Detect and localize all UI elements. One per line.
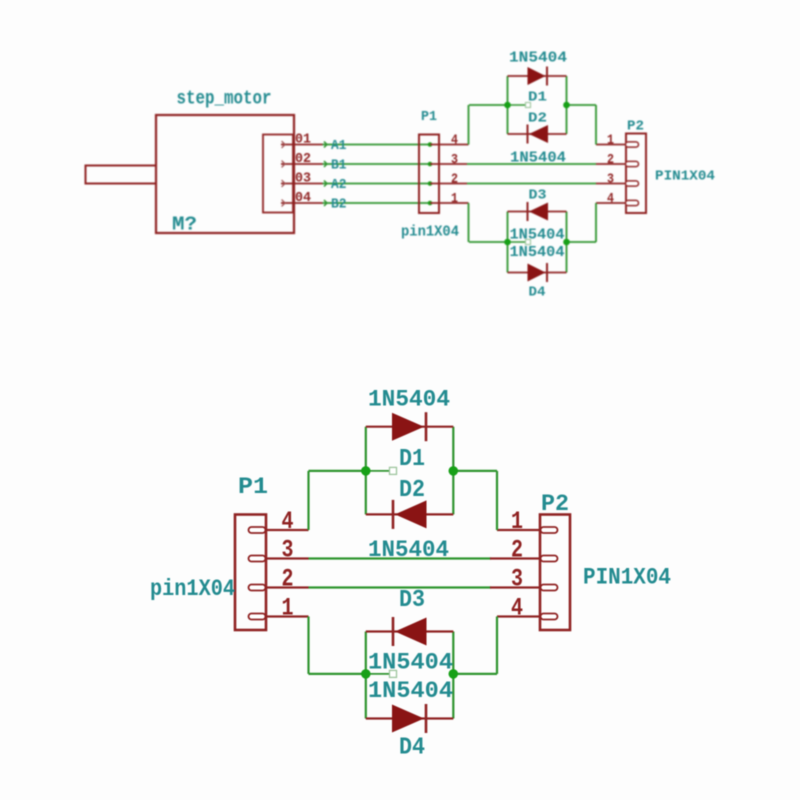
svg-text:P1: P1	[421, 109, 437, 125]
svg-text:4: 4	[607, 191, 614, 207]
svg-text:P2: P2	[541, 491, 569, 517]
svg-text:3: 3	[511, 565, 523, 594]
svg-text:2: 2	[511, 536, 523, 565]
svg-text:1N5404: 1N5404	[368, 650, 453, 676]
svg-text:1N5404: 1N5404	[510, 227, 565, 244]
svg-text:1: 1	[282, 594, 294, 623]
svg-text:D3: D3	[529, 188, 547, 204]
svg-text:M?: M?	[172, 214, 197, 236]
svg-text:B2: B2	[331, 197, 347, 213]
svg-text:1N5404: 1N5404	[509, 50, 567, 67]
svg-text:03: 03	[295, 172, 311, 187]
svg-text:step_motor: step_motor	[177, 88, 272, 110]
svg-text:D2: D2	[399, 477, 425, 504]
svg-text:01: 01	[295, 133, 311, 148]
svg-text:D4: D4	[399, 735, 425, 762]
svg-text:1: 1	[607, 133, 614, 149]
svg-text:3: 3	[282, 536, 294, 565]
svg-text:2: 2	[451, 172, 458, 188]
svg-text:PIN1X04: PIN1X04	[655, 169, 715, 185]
svg-text:pin1X04: pin1X04	[150, 576, 235, 602]
svg-text:1: 1	[451, 191, 458, 207]
svg-text:1N5404: 1N5404	[510, 150, 566, 167]
svg-text:1N5404: 1N5404	[368, 387, 450, 413]
svg-text:4: 4	[451, 133, 458, 149]
svg-text:D1: D1	[399, 446, 425, 473]
svg-text:04: 04	[295, 191, 311, 206]
svg-text:D4: D4	[529, 285, 546, 301]
svg-text:1N5404: 1N5404	[510, 244, 565, 261]
svg-text:4: 4	[511, 594, 523, 623]
svg-text:1: 1	[511, 507, 523, 536]
svg-text:02: 02	[295, 152, 311, 167]
svg-text:1N5404: 1N5404	[368, 678, 453, 704]
svg-text:pin1X04: pin1X04	[401, 224, 459, 241]
svg-text:D2: D2	[528, 111, 547, 127]
svg-text:3: 3	[607, 172, 614, 188]
svg-text:3: 3	[451, 152, 458, 168]
svg-text:A2: A2	[331, 177, 347, 193]
svg-text:4: 4	[282, 507, 294, 536]
svg-text:D1: D1	[528, 90, 547, 106]
svg-text:P1: P1	[238, 474, 268, 500]
svg-text:2: 2	[282, 565, 294, 594]
svg-text:P2: P2	[627, 119, 644, 135]
svg-text:B1: B1	[331, 158, 347, 174]
svg-text:2: 2	[607, 152, 614, 168]
svg-text:1N5404: 1N5404	[368, 537, 449, 563]
svg-text:D3: D3	[399, 587, 425, 614]
svg-text:PIN1X04: PIN1X04	[583, 565, 671, 591]
svg-text:A1: A1	[331, 138, 347, 154]
